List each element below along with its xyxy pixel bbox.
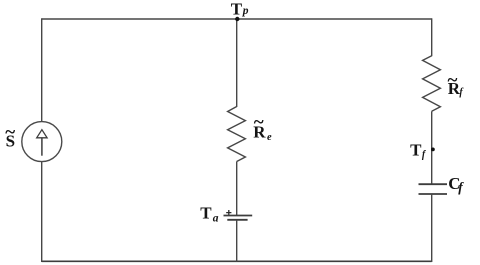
- svg-text:f: f: [458, 180, 464, 195]
- wire bottom (ground rail): [42, 260, 432, 262]
- current source arrowhead: [37, 130, 47, 138]
- battery Ta plus sign: [226, 210, 231, 215]
- current source arrow shaft: [41, 137, 43, 155]
- wire top (node Tp rail): [42, 18, 432, 20]
- battery Ta bottom plate: [227, 219, 247, 221]
- node Tp junction dot: [235, 17, 239, 21]
- capacitor Cf bottom plate: [419, 193, 448, 195]
- wire left upper: [41, 18, 43, 122]
- current source S1 circle: [22, 122, 62, 162]
- wire middle between resistor and battery: [236, 162, 238, 216]
- wire middle upper: [236, 19, 238, 107]
- battery Ta top plate: [224, 215, 253, 217]
- wire right middle (resistor to capacitor): [431, 111, 433, 184]
- svg-text:f: f: [459, 87, 464, 98]
- resistor Rf zigzag: [423, 56, 441, 112]
- svg-text:S: S: [6, 132, 15, 151]
- resistor Re zigzag: [228, 107, 246, 162]
- svg-text:a: a: [213, 213, 219, 225]
- node Tf dot: [431, 148, 435, 152]
- wire middle lower: [236, 220, 238, 262]
- capacitor Cf top plate: [419, 183, 448, 185]
- svg-text:R: R: [253, 123, 266, 142]
- wire right upper: [431, 18, 433, 56]
- svg-text:T: T: [410, 141, 422, 160]
- wire right lower: [431, 194, 433, 262]
- svg-text:e: e: [267, 132, 272, 143]
- svg-text:T: T: [200, 203, 212, 222]
- svg-text:f: f: [422, 150, 427, 161]
- svg-text:T: T: [231, 0, 243, 18]
- wire left lower: [41, 161, 43, 262]
- svg-text:p: p: [242, 5, 249, 17]
